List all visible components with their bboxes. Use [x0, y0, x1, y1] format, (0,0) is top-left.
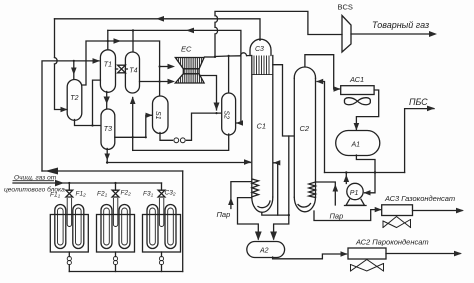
air cooler AC3 body	[382, 205, 413, 216]
arrow S1 header flow right	[114, 38, 122, 44]
arrow into T3 top	[104, 97, 110, 105]
adsorber F2 center channel	[113, 199, 117, 227]
arrow into C1 right wall	[273, 160, 280, 165]
wire PBS product line	[405, 109, 434, 173]
svg-text:Р1: Р1	[350, 190, 359, 197]
svg-text:ЕС: ЕС	[181, 45, 192, 54]
AC3 fan	[383, 217, 411, 228]
svg-text:АС1: АС1	[349, 75, 364, 84]
wire AC1 outlet to A1	[356, 90, 378, 130]
wire T4 bottom riser from S2 bottoms line	[132, 98, 134, 151]
wire T3 bottom outlet	[106, 149, 108, 164]
wire A2 outlet to AC2	[273, 254, 347, 259]
arrow P1 discharge up	[344, 175, 350, 183]
adsorber F3 tube 1	[147, 205, 158, 249]
arrow into T2 top	[71, 68, 77, 76]
column C1 condenser dome C3	[250, 39, 271, 55]
wire P1 discharge riser	[345, 173, 347, 184]
arrow recycle flow left	[156, 16, 164, 22]
wire hop over S2/T4 riser	[241, 53, 247, 56]
wire S2 top riser	[228, 56, 230, 92]
arrow product gas	[429, 31, 437, 37]
wire S1 bottom line with valve to S2	[160, 133, 173, 141]
C1 condenser section bottom line	[252, 74, 273, 76]
wire AC3 outlet gas condensate	[413, 210, 463, 212]
wire adsorber block right riser	[182, 171, 184, 272]
svg-text:S1: S1	[154, 111, 161, 120]
heat exchanger T2	[67, 80, 82, 121]
arrow T4 header flow left	[186, 28, 194, 34]
wire C1 feed line y162.5	[107, 162, 251, 164]
svg-text:Пар: Пар	[217, 210, 231, 219]
svg-text:S2: S2	[223, 111, 230, 120]
arrow adsorber feed	[55, 180, 64, 187]
svg-text:Т1: Т1	[104, 62, 112, 69]
arrow into A2 left inlet	[255, 232, 262, 241]
wire T2 feed riser x54.5 down to T2 left nozzle	[54, 19, 56, 58]
air cooler AC1 body	[341, 86, 374, 95]
arrow into C2 dome	[316, 79, 323, 84]
valve F2 outlet	[115, 252, 117, 257]
svg-text:АС3 Газоконденсат: АС3 Газоконденсат	[384, 194, 455, 203]
arrow into T4 bottom	[130, 97, 136, 105]
wire T1 left side outlet down to T3 feed	[93, 80, 101, 125]
heat exchanger T3	[101, 109, 115, 149]
C1 reboiler coil zigzag	[252, 179, 259, 197]
arrow return flow left	[45, 168, 58, 175]
wire steam riser to C2 coil	[316, 182, 335, 205]
wire T1 top riser to S2/T4 header	[107, 30, 109, 49]
wire reflux riser to C2 top	[317, 82, 325, 173]
C2 top dome	[294, 67, 315, 78]
EC fins hatching	[177, 58, 204, 84]
drum A2	[247, 242, 285, 258]
wire C2 overhead to AC1	[305, 55, 340, 89]
adsorber box F1	[50, 215, 88, 253]
arrow S2 side nozzle	[236, 120, 243, 125]
wire BCS feed header (S2/EC overhead to compressor) with hops	[215, 11, 342, 57]
svg-text:Т4: Т4	[129, 68, 137, 75]
arrow into S1 left	[146, 113, 153, 118]
wire S2 to T4 header y30.4	[108, 30, 241, 123]
wire EC lower outlet down to S2 feed	[200, 76, 217, 111]
pump P1	[347, 183, 363, 199]
adsorber F3 tube 2	[165, 205, 176, 249]
air cooled condenser EC upper bundle	[175, 58, 204, 69]
svg-text:С1: С1	[257, 122, 267, 131]
svg-text:BCS: BCS	[338, 3, 353, 12]
wire C1 right wall return line	[274, 163, 278, 215]
adsorber F3 center channel	[159, 199, 163, 227]
svg-text:Т3: Т3	[104, 126, 112, 133]
wire AC2 outlet steam condensate	[386, 253, 460, 255]
C2 reboiler coil zigzag	[309, 182, 316, 198]
C2 bottom dome with inner arc	[294, 197, 315, 212]
arrow into EC upper	[168, 64, 176, 69]
arrow into AC2	[341, 251, 348, 256]
wire adsorber product return y171	[42, 170, 183, 172]
svg-text:А1: А1	[351, 142, 361, 149]
arrow steam C1 up	[228, 198, 234, 206]
wire adsorber bottom manifold	[69, 271, 182, 273]
wire underline of feed caption	[13, 180, 54, 182]
C1 bottom dome with inner arc	[252, 197, 273, 212]
EC middle band	[183, 69, 199, 74]
wire S1 riser branch to EC upper inlet	[160, 66, 172, 68]
arrow into T1 left	[93, 58, 101, 64]
reflux drum A1	[336, 131, 380, 156]
column C1 body	[251, 56, 253, 198]
heat exchanger T4	[125, 52, 139, 93]
wire T1 bottom down into T3 top	[106, 92, 108, 109]
EC lower bundle	[175, 74, 204, 83]
svg-text:Т2: Т2	[70, 95, 78, 102]
valve F3 inlet	[161, 183, 163, 190]
C1 condenser tube hatching	[254, 56, 269, 75]
AC1 fan	[344, 98, 370, 105]
separator S2	[222, 93, 236, 135]
heat exchanger T1	[100, 50, 115, 93]
arrow into T2 left	[61, 107, 68, 112]
valve F1 inlet	[68, 183, 70, 190]
svg-text:А2: А2	[259, 248, 269, 255]
wire C2 feed branch down x288.8	[274, 136, 289, 239]
wire T2 right side up to S1 header y41	[82, 41, 160, 95]
arrow PBS	[427, 106, 435, 112]
arrow into P1 suction	[364, 190, 371, 195]
air cooler AC2 body	[348, 248, 386, 259]
svg-text:Очищ. газ от: Очищ. газ от	[14, 175, 57, 182]
valve F2 inlet	[115, 183, 117, 190]
adsorber F1 tube 2	[73, 205, 84, 249]
compressor BCS	[342, 16, 351, 53]
svg-text:Товарный газ: Товарный газ	[372, 20, 429, 30]
separator S1	[153, 96, 169, 134]
wire compressor discharge to product gas	[351, 33, 434, 35]
arrow steam C2 up	[333, 184, 339, 192]
arrow EC condensate down	[214, 103, 220, 111]
wire A1 bottoms to P1 suction	[356, 155, 375, 193]
arrow into C1 left wall	[244, 159, 252, 165]
wire T4 top riser	[132, 30, 134, 51]
wire C1 condensate to A2 left inlet	[238, 198, 259, 239]
arrow into A2 right inlet	[270, 232, 277, 241]
wire T2 bottom outlet to T3 left	[75, 120, 101, 126]
wire adsorber return riser x42 and T1 feed line y60.9	[42, 61, 99, 171]
wire reflux and PBS manifold y172.5	[325, 172, 405, 174]
wire branch down into T2 top	[73, 61, 75, 79]
wire T3 right outlet header y137.3	[115, 115, 152, 137]
wire C2 bottoms to AC3	[314, 210, 381, 221]
wire C1 bottoms to junction	[262, 213, 289, 216]
wire C1 side draw to C2 feed	[273, 65, 294, 136]
svg-text:С3: С3	[255, 46, 264, 53]
adsorber box F2	[97, 215, 135, 253]
P1 base	[346, 199, 365, 205]
arrow into AC3	[375, 207, 382, 212]
junction dots at line tees	[68, 29, 376, 216]
arrow into A1 top	[354, 123, 360, 131]
adsorber F2 tube 1	[101, 205, 112, 249]
wire hop of T2 riser over T1 feed line	[55, 58, 58, 65]
adsorber F2 tube 2	[119, 205, 130, 249]
wire adsorber feed line from zeolite unit	[13, 182, 162, 184]
svg-text:ПБС: ПБС	[409, 97, 428, 107]
valve between T1 and T4	[118, 65, 126, 69]
wire EC upper outlet to BCS riser	[205, 56, 216, 58]
svg-text:С2: С2	[300, 124, 310, 133]
AC2 fan	[351, 260, 384, 272]
adsorber box F3	[143, 215, 181, 253]
wire steam riser to C1 coil	[231, 182, 252, 209]
valve F3 outlet	[161, 252, 163, 257]
arrow AC3 product	[456, 208, 464, 214]
valve F1 outlet	[68, 252, 70, 257]
column C2 body	[293, 78, 295, 197]
wire C1 overhead recycle header y18.8 to T2 riser	[55, 19, 261, 41]
adsorber F1 center channel	[67, 199, 71, 227]
svg-text:АС2 Пароконденсат: АС2 Пароконденсат	[355, 238, 429, 247]
arrow into EC lower	[168, 79, 176, 84]
wire T4 to EC lower inlet	[140, 81, 173, 83]
arrow into AC1	[334, 86, 341, 91]
adsorber F1 tube 1	[55, 205, 66, 249]
wire condenser overhead header y55.5 to C1	[215, 55, 241, 58]
svg-text:Пар: Пар	[330, 212, 344, 221]
arrow T3 bottom flow down	[104, 154, 110, 161]
valve on S1 bottom line	[174, 138, 179, 143]
wire S2 bottoms line y150.4	[133, 134, 229, 150]
arrow AC2 product	[454, 251, 462, 257]
